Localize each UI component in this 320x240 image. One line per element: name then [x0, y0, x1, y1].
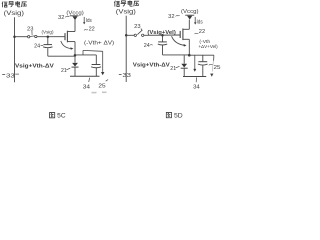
bootstrap curved arrow — [61, 41, 74, 50]
wire: drain vertical (right) — [188, 20, 190, 30]
arrowhead: far right discharge arrow — [210, 74, 213, 77]
wire: signal rail right circuit — [125, 16, 127, 82]
wire: switch to gate — [37, 36, 65, 38]
caption 图5D — [166, 112, 183, 119]
label: 21 with leader (right) — [170, 66, 179, 72]
svg-text:34: 34 — [193, 84, 200, 90]
svg-text:5C: 5C — [57, 114, 66, 120]
label: 21 with leader — [61, 68, 70, 74]
svg-text:25: 25 — [214, 65, 221, 71]
label: 24 with tilde leader — [34, 44, 43, 50]
svg-text:24: 24 — [34, 44, 40, 50]
faint bleed marks — [92, 91, 107, 93]
label: (Vsig) heading — [4, 11, 24, 17]
current arrow Ids (right) — [194, 17, 203, 26]
node: source junction dot (right) — [188, 54, 191, 57]
wire: signal line vertical rail — [14, 17, 16, 82]
node: junction dot on signal rail — [13, 35, 16, 38]
svg-text:Ids: Ids — [86, 18, 92, 24]
capacitor 24 (storage) — [43, 37, 52, 56]
label: 34 with leader — [83, 78, 91, 91]
label: Vsig+Vth-dV (right) — [133, 63, 170, 69]
svg-text:5D: 5D — [174, 114, 183, 120]
svg-text:23: 23 — [27, 26, 33, 32]
current arrow Ids — [83, 17, 92, 25]
diode 21 (right) — [181, 55, 188, 76]
svg-text:(Vsig): (Vsig) — [116, 10, 136, 16]
svg-text:25: 25 — [98, 83, 105, 89]
svg-text:Vsig+Vth-ΔV: Vsig+Vth-ΔV — [133, 63, 170, 69]
current arrow into EL (short) — [193, 55, 196, 71]
svg-text:(Vccg): (Vccg) — [181, 9, 199, 15]
power terminal (Vccg) — [66, 11, 84, 21]
wire: cap24 to source node (right) — [163, 54, 190, 56]
wire: drain vertical — [74, 20, 76, 32]
node: junction dot gate/cap (right) — [161, 34, 164, 37]
label: (-Vth+ dV) — [84, 40, 115, 46]
label: (Vsig+Vel) node — [147, 30, 175, 36]
label: 33 signal line (right) — [119, 73, 131, 79]
diode 21 (EL element) — [72, 56, 79, 76]
svg-text:21: 21 — [61, 68, 67, 74]
wire: cap24 bottom to source node — [48, 55, 75, 57]
label: +dV+Vel) line 2 — [198, 44, 218, 50]
wire: source vertical (right) — [188, 39, 190, 55]
node: source junction dot — [74, 54, 77, 57]
label: 34 with leader (right) — [193, 77, 200, 90]
label: 22 with tilde leader — [84, 26, 95, 32]
label: 32 with tilde (right) — [168, 14, 180, 20]
svg-text:24: 24 — [144, 43, 150, 49]
label: 22 with tilde (right) — [195, 29, 206, 35]
capacitor 25 (right) — [198, 55, 208, 76]
label: Vsig+Vth-dV — [15, 64, 54, 70]
wire: source vertical — [74, 42, 76, 57]
wire: riser and branch to discharge arrow — [83, 50, 103, 72]
arrowhead: discharge arrow — [101, 72, 104, 75]
svg-text:+ΔV+Vel): +ΔV+Vel) — [198, 44, 218, 50]
label: 23 with leader — [27, 26, 33, 35]
capacitor 25 (EL capacitance) — [91, 55, 101, 76]
wire: cathode bottom rail — [70, 75, 100, 77]
wire: source node rail right — [75, 54, 96, 56]
node: junction dot on rail — [125, 34, 128, 37]
label: signal voltage heading (Chinese) right — [114, 0, 139, 6]
label: (Vsig) heading right — [116, 10, 136, 16]
transistor 22 (drive) — [65, 31, 75, 43]
svg-text:34: 34 — [83, 84, 91, 90]
svg-text:22: 22 — [199, 29, 205, 35]
label: 23 with leader (right) — [134, 24, 142, 31]
svg-text:32: 32 — [58, 15, 65, 21]
svg-text:(Vsig): (Vsig) — [42, 30, 54, 36]
svg-text:21: 21 — [170, 66, 176, 72]
switch 23 (closed) — [28, 35, 37, 38]
bootstrap curved arrow (right) — [172, 36, 187, 46]
svg-text:32: 32 — [168, 14, 175, 20]
switch 23 (open) — [134, 30, 144, 37]
label: 25 with tilde (right) — [209, 64, 221, 71]
svg-text:23: 23 — [134, 24, 140, 30]
wire: cathode bottom rail (right) — [183, 76, 206, 78]
wire: rail to switch — [126, 34, 134, 36]
node: junction dot gate/cap — [47, 35, 50, 38]
label: signal voltage heading (Chinese) — [2, 1, 27, 7]
label: 32 with tilde leader — [58, 15, 69, 21]
label: 24 with tilde (right) — [144, 43, 153, 49]
label: (-Vth line 1 — [199, 39, 210, 45]
capacitor 24 (right) — [158, 36, 167, 55]
svg-text:22: 22 — [89, 26, 95, 32]
transistor 22 (right) — [180, 29, 189, 41]
wire: rail to switch — [15, 36, 28, 38]
svg-text:(Vsig): (Vsig) — [4, 11, 24, 17]
svg-text:33: 33 — [122, 73, 131, 79]
power terminal (Vccg) right — [181, 9, 199, 20]
wire: source rail to far right branch — [189, 55, 214, 71]
svg-text:(-Vth+ ΔV): (-Vth+ ΔV) — [84, 40, 115, 46]
label: (Vsig) node — [42, 30, 54, 36]
label: 25 with leader — [98, 80, 108, 90]
wire: switch to gate (right) — [144, 34, 180, 36]
svg-text:Ids: Ids — [197, 19, 204, 25]
svg-text:Vsig+Vth-ΔV: Vsig+Vth-ΔV — [15, 64, 54, 70]
svg-text:33: 33 — [6, 73, 15, 79]
caption 图5C — [50, 113, 67, 120]
label: 33 signal line — [2, 73, 19, 79]
